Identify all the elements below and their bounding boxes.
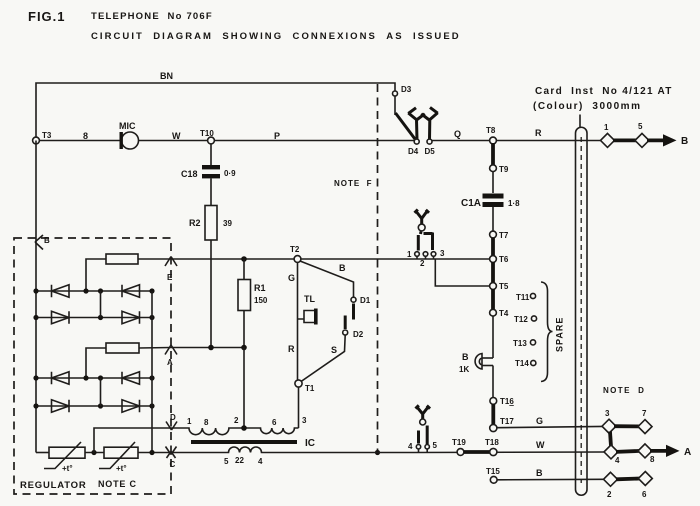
contact D5 [427, 139, 432, 144]
terminal T6 [490, 256, 497, 263]
node C exit X [166, 447, 177, 459]
wire T2 down to T1 [297, 263, 299, 381]
terminal T1 [295, 380, 302, 387]
hookswitch fork bottom [416, 405, 431, 419]
wire D2 to T1 [301, 335, 345, 382]
contact 1 [415, 252, 420, 257]
svg-text:B: B [681, 136, 688, 147]
svg-text:T14: T14 [515, 359, 529, 368]
bell B 1K [475, 354, 482, 370]
svg-text:T6: T6 [499, 255, 509, 264]
hookswitch fork mid [415, 210, 430, 225]
diode row1 right [122, 285, 140, 297]
strap T5-T4 [491, 289, 495, 310]
wire rail row1-row2 [100, 291, 102, 318]
contact D3 [393, 91, 398, 96]
plug diamond 2 [604, 472, 618, 486]
svg-text:T8: T8 [486, 126, 496, 135]
switch arm D3-D4 [396, 113, 416, 139]
plug diamond 1 [601, 133, 615, 147]
terminal T17 [490, 424, 497, 431]
resistor middle (regulator) [106, 343, 139, 353]
IC core bar [191, 440, 297, 444]
node B entry X [35, 235, 43, 250]
wire R2 bottom to A-wire [210, 240, 212, 348]
svg-text:5: 5 [638, 122, 643, 131]
svg-text:G: G [536, 416, 543, 426]
diode row3 right [122, 372, 140, 384]
wire resistor top right lead to E [138, 258, 171, 260]
svg-text:T19: T19 [452, 438, 466, 447]
svg-text:T12: T12 [514, 315, 528, 324]
diode row4 right [122, 400, 140, 412]
terminal T16 [490, 398, 497, 405]
svg-text:B: B [536, 468, 543, 478]
resistor R2 [210, 179, 212, 206]
terminal T8 [490, 137, 497, 144]
capacitor C18 [210, 144, 212, 165]
wire rail row3-row4 [100, 378, 102, 406]
svg-text:2: 2 [607, 490, 612, 499]
wire top main from D5 to cord [432, 140, 601, 142]
wire BN top bracket [36, 83, 395, 141]
wire R1 bottom to A-wire [243, 311, 245, 348]
terminal T18 [490, 448, 497, 455]
svg-text:T18: T18 [485, 438, 499, 447]
strap T19-T18 [464, 450, 490, 454]
wire resistor mid right lead to A [139, 347, 171, 350]
diode row1 left [52, 285, 70, 297]
terminal T5 [490, 283, 497, 290]
hookswitch arms mid [418, 232, 432, 251]
junction R1 top [241, 256, 247, 262]
hookswitch arms bottom [419, 426, 428, 445]
plug diamond 5 [635, 133, 649, 147]
svg-text:1K: 1K [459, 365, 469, 374]
junction dots row1 [33, 288, 38, 293]
svg-text:7: 7 [642, 409, 647, 418]
contact arm D2 [344, 316, 347, 330]
wire branch to T5 [435, 259, 490, 286]
capacitor C1A [483, 194, 504, 199]
terminal T15 [490, 476, 497, 483]
resistor R1 [243, 259, 245, 280]
strap 2-6 [616, 477, 640, 482]
contact 5 [425, 445, 429, 449]
cord centre dashed [580, 137, 582, 483]
spare brace [541, 282, 553, 382]
dashed line NOTE F [377, 84, 379, 453]
svg-text:T7: T7 [499, 231, 509, 240]
cord capsule [576, 127, 588, 495]
svg-text:T11: T11 [516, 293, 530, 302]
wire G T17 to plug [497, 426, 603, 427]
svg-text:NOTE D: NOTE D [603, 386, 645, 395]
wire diode row 1 [36, 290, 152, 292]
thermistor 1 [49, 447, 85, 458]
terminal T4 [490, 309, 497, 316]
svg-text:8: 8 [650, 455, 655, 464]
svg-text:C1A: C1A [461, 198, 481, 209]
wire D3 stem [394, 96, 396, 115]
contact 4 [416, 445, 420, 449]
plug diamond 7 [638, 420, 652, 434]
contact D2 [343, 330, 348, 335]
svg-text:T5: T5 [499, 282, 509, 291]
svg-text:1·8: 1·8 [508, 199, 520, 208]
wire left rail to thermistor [36, 452, 49, 454]
wire T9 to C1A [492, 172, 494, 193]
junction dashed line to bottom wire [375, 450, 380, 455]
resistor top (regulator) [106, 254, 138, 264]
wire bottom main to T19/T18 [414, 451, 604, 454]
link diamond3-diamond4 [610, 432, 611, 447]
diode row3 left [52, 372, 70, 384]
terminal T9 [490, 165, 497, 172]
svg-text:T4: T4 [499, 309, 509, 318]
card pointer line [579, 115, 581, 129]
plug diamond 6 [638, 472, 652, 486]
wire resistor top left lead [86, 259, 106, 291]
wire diode row 3 [36, 377, 152, 379]
strap 4-8 [616, 451, 640, 452]
junction dots row2 [33, 315, 38, 320]
svg-text:SPARE: SPARE [555, 317, 565, 352]
wire left rail [35, 141, 37, 453]
wire T4 down to bell [492, 316, 494, 358]
diode row4 left [52, 400, 70, 412]
svg-text:T16: T16 [500, 397, 514, 406]
hookswitch pivot mid [418, 224, 425, 231]
plug diamond 3 [602, 419, 616, 433]
gravity switch fork right [421, 107, 438, 140]
wire top main from T3 to D4 [36, 140, 414, 142]
strap T6-T5 [491, 262, 495, 283]
terminal T19 [457, 449, 464, 456]
svg-text:T17: T17 [500, 417, 514, 426]
wire riser mid-thermistor to D [94, 428, 171, 453]
diode row2 right [122, 311, 140, 323]
node E exit X [165, 257, 177, 267]
svg-text:B: B [462, 352, 469, 362]
svg-text:A: A [684, 447, 691, 458]
terminal T2 [294, 256, 301, 263]
plug diamond 8 [638, 444, 652, 458]
wire A to R1 column [171, 347, 244, 349]
svg-text:T9: T9 [499, 165, 509, 174]
IC winding 2 on bottom wire [171, 447, 414, 453]
svg-text:6: 6 [642, 490, 647, 499]
wire resistor mid left lead [86, 348, 106, 378]
gravity switch fork left [408, 108, 425, 140]
terminal T7 [490, 231, 497, 238]
terminal T3 [33, 137, 40, 144]
wire diode row 2 [36, 317, 152, 319]
svg-text:T13: T13 [513, 339, 527, 348]
svg-text:3: 3 [605, 409, 610, 418]
wire B diagonal T2 to D1 [300, 261, 354, 297]
arrow A [650, 449, 668, 453]
strap 3-7 [614, 424, 640, 428]
wire between thermistors [85, 452, 104, 454]
svg-text:W: W [536, 440, 545, 450]
junction dots row4 [33, 403, 38, 408]
wire B T15 to plug [497, 478, 604, 481]
contact D1 [351, 297, 356, 302]
thermistor 2 [104, 447, 138, 458]
terminal T10 [208, 137, 215, 144]
contact 2 [423, 252, 428, 257]
junction IC tap2 [241, 425, 247, 431]
hookswitch pivot bottom [420, 419, 426, 425]
svg-text:T15: T15 [486, 467, 500, 476]
wire right rail [151, 291, 153, 453]
contact arm D1 [352, 304, 355, 320]
strap T8-T9 [491, 143, 495, 166]
svg-text:4: 4 [615, 456, 620, 465]
contact 3 [431, 252, 436, 257]
wire middle main E to T6 [171, 258, 490, 260]
arrow B [647, 138, 665, 142]
wire bell to T16 [492, 366, 494, 398]
induction coil IC winding 1 [171, 428, 299, 435]
regulator dashed box [14, 238, 171, 494]
strap T7-T6 [491, 238, 495, 256]
wire thermistor2 to C [138, 452, 171, 454]
svg-text:1: 1 [604, 123, 609, 132]
junction dots row3 [33, 375, 38, 380]
wire T1 down to IC tap 3 [298, 387, 300, 428]
strap T16-T17 [491, 404, 495, 425]
wire R1 column down to IC tap 2 [243, 348, 245, 429]
contact D4 [414, 139, 419, 144]
wire diode row 4 [36, 405, 152, 407]
node D exit X [166, 422, 177, 431]
wire C1A to T7 [492, 207, 494, 231]
strap 1-5 [613, 138, 637, 142]
plug diamond 4 [604, 445, 618, 459]
diode row2 left [52, 311, 70, 323]
node A exit X [165, 345, 177, 355]
